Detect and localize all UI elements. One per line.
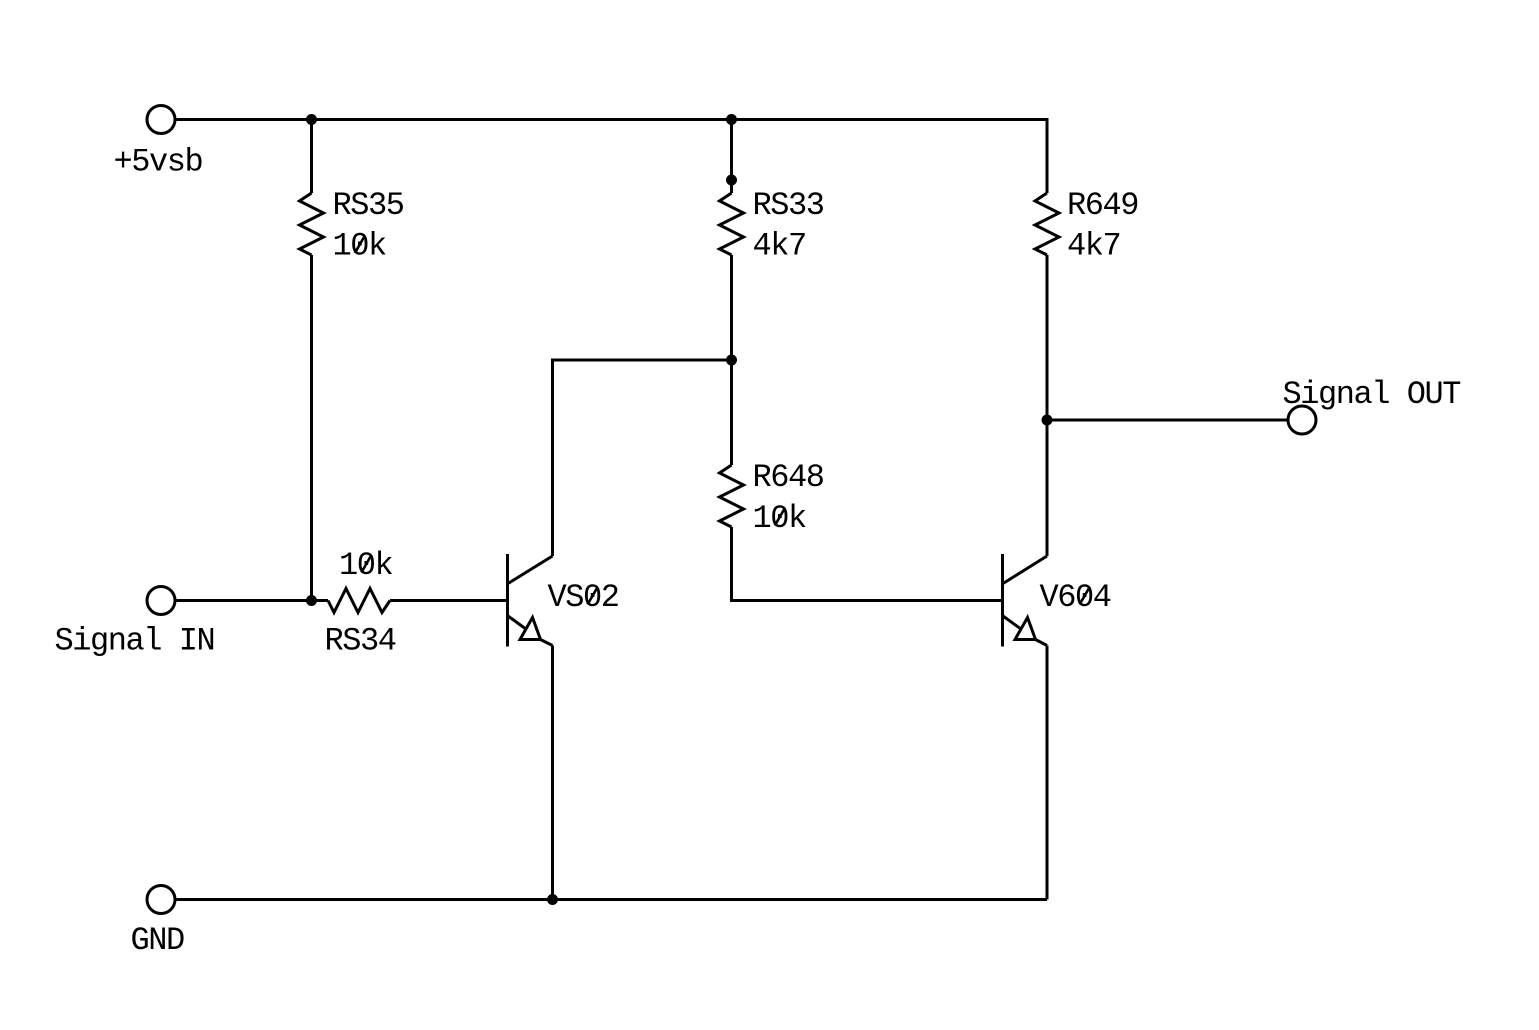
svg-text:RS35: RS35 bbox=[333, 187, 404, 224]
transistor VS02 collector lead bbox=[508, 556, 553, 584]
junction dot on RS33 lead bbox=[726, 175, 737, 186]
svg-text:R648: R648 bbox=[753, 459, 824, 496]
terminal +5vsb bbox=[147, 106, 175, 134]
wire R649 top lead bbox=[1046, 118, 1049, 193]
junction dot Signal IN / RS35 bbox=[306, 595, 317, 606]
wire RS33 top lead bbox=[730, 120, 733, 194]
transistor V604 collector lead bbox=[1003, 556, 1047, 584]
transistor VS02 base bar bbox=[506, 554, 509, 647]
transistor V604 emitter lead bbox=[1003, 616, 1036, 640]
transistor V604 emitter corner segment bbox=[1036, 640, 1048, 646]
svg-text:R649: R649 bbox=[1067, 187, 1138, 224]
terminal Signal IN bbox=[147, 587, 175, 615]
junction dot at +5vsb rail / RS33 bbox=[726, 114, 737, 125]
wire top rail bbox=[176, 118, 1048, 121]
svg-text:Signal IN: Signal IN bbox=[55, 623, 215, 660]
svg-text:4k7: 4k7 bbox=[1067, 228, 1120, 265]
transistor V604 emitter arrow bbox=[1015, 618, 1036, 640]
terminal GND bbox=[147, 886, 175, 914]
wire RS35 bottom lead bbox=[310, 255, 313, 601]
wire R648 to V604 base bbox=[732, 527, 1002, 601]
wire R649 to collector of V604 bbox=[1046, 255, 1049, 556]
wire VS02 collector to node bbox=[553, 360, 732, 556]
junction dot RS33 / R648 node bbox=[726, 355, 737, 366]
svg-text:V604: V604 bbox=[1040, 579, 1111, 616]
svg-text:RS34: RS34 bbox=[325, 623, 396, 660]
slash of zero in R648 10k bbox=[775, 508, 785, 526]
transistor VS02 emitter corner segment bbox=[541, 640, 553, 646]
resistor RS34 bbox=[328, 589, 390, 613]
junction dot Signal OUT bbox=[1042, 415, 1053, 426]
terminal Signal OUT bbox=[1288, 406, 1316, 434]
wire ground rail bbox=[176, 898, 1048, 901]
wire RS33 bottom lead bbox=[730, 255, 733, 360]
slash of zero in V604 bbox=[1080, 587, 1090, 605]
wire V604 emitter to ground rail bbox=[1046, 646, 1049, 900]
slash of zero in RS34 10k bbox=[361, 555, 371, 573]
svg-text:GND: GND bbox=[131, 922, 185, 959]
svg-text:RS33: RS33 bbox=[753, 187, 824, 224]
svg-text:+5vsb: +5vsb bbox=[114, 144, 203, 181]
transistor V604 base bar bbox=[1001, 554, 1004, 647]
junction dot at +5vsb rail / RS35 bbox=[306, 114, 317, 125]
resistor R649 bbox=[1035, 193, 1059, 255]
resistor R648 bbox=[720, 465, 744, 527]
svg-text:4k7: 4k7 bbox=[753, 228, 806, 265]
svg-text:Signal OUT: Signal OUT bbox=[1283, 376, 1461, 413]
wire R648 top lead bbox=[730, 360, 733, 465]
transistor VS02 emitter arrow bbox=[520, 618, 541, 640]
wire Signal OUT bbox=[1047, 419, 1288, 422]
resistor RS33 bbox=[720, 193, 744, 255]
slash of zero in VS02 bbox=[588, 587, 598, 605]
wire Signal IN to node bbox=[176, 599, 329, 602]
wire VS02 emitter to ground rail bbox=[551, 646, 554, 900]
wire RS34 to VS02 base bbox=[390, 599, 506, 602]
resistor RS35 bbox=[300, 193, 324, 255]
transistor VS02 emitter lead bbox=[508, 616, 541, 640]
slash of zero in RS35 10k bbox=[355, 236, 365, 254]
svg-text:VS02: VS02 bbox=[548, 579, 619, 616]
wire RS35 top lead bbox=[310, 120, 313, 194]
junction dot VS02 emitter / ground rail bbox=[547, 894, 558, 905]
